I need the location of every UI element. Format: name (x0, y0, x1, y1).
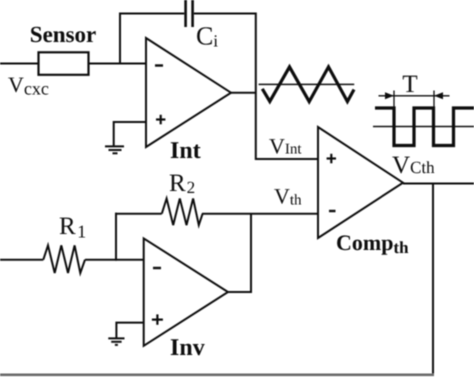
Comp plus sign (327, 157, 336, 159)
wire Int plus input (114, 122, 146, 146)
wire feedback top left segment (119, 13, 184, 15)
label Vcxc (8, 78, 48, 95)
Int plus sign (156, 118, 165, 120)
wire VInt to comparator plus (255, 158, 318, 160)
wire comparator output (403, 183, 474, 185)
wire node up to R2 (115, 213, 117, 261)
Int minus sign (155, 64, 163, 66)
label Inv (171, 339, 205, 355)
wire Inv plus input (116, 323, 143, 338)
resistor R2 (162, 199, 203, 226)
wire R1 to Inv inverting input (85, 259, 144, 261)
sensor resistor (box) (39, 52, 89, 75)
wire feedback left vertical (119, 13, 121, 65)
wire Vth to comparator minus (202, 213, 318, 215)
label Comp_th (337, 235, 408, 254)
wire feedback top right segment (194, 13, 256, 15)
T measure ticks (393, 91, 395, 110)
capacitor Ci (184, 0, 187, 27)
label Ci (197, 27, 218, 46)
wire Inv output (228, 291, 252, 293)
label VInt (269, 139, 301, 154)
T measure line with arrows (379, 95, 450, 97)
wire right vertical node VInt (255, 13, 257, 161)
Inv minus sign (153, 267, 161, 269)
wire R1 input (0, 259, 43, 261)
wire Vcxc input to sensor (0, 63, 38, 65)
op-amp Int (146, 38, 231, 147)
triangle waveform (262, 67, 354, 102)
op-amp Inv (144, 238, 228, 345)
square waveform (375, 108, 474, 146)
label Vth (274, 189, 301, 205)
square wave axis (373, 126, 474, 128)
label VCth (392, 157, 434, 174)
ground (Int) (105, 145, 124, 147)
label R2 (170, 175, 195, 193)
Inv plus sign (152, 319, 163, 321)
wire Int output (231, 92, 256, 94)
ground (Inv) (108, 337, 124, 339)
wire R2 left (115, 213, 162, 215)
wire Inv feedback vertical (250, 213, 252, 293)
label Sensor (31, 27, 96, 42)
triangle wave axis (259, 83, 355, 85)
label T (403, 76, 417, 92)
Comp minus sign (329, 210, 336, 212)
wire sensor to Int inverting input (89, 63, 146, 65)
resistor R1 (43, 245, 85, 273)
feedback wire right vertical (432, 184, 434, 375)
comparator Comp_th (318, 127, 403, 238)
label Int (171, 142, 201, 158)
label R1 (60, 218, 85, 238)
feedback wire bottom (gray) (0, 373, 434, 376)
